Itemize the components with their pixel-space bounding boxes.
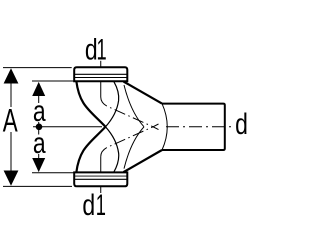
- extension line a top: [32, 80, 74, 82]
- centerline horizontal: [166, 126, 231, 128]
- svg-text:a: a: [33, 94, 46, 127]
- centerline top socket: [101, 61, 159, 130]
- label mask a top: [32, 103, 48, 122]
- centerline bottom socket: [101, 124, 159, 193]
- label a top: [33, 94, 46, 127]
- svg-text:d: d: [85, 33, 98, 66]
- inner crotch curve lower: [124, 127, 144, 169]
- top socket collar: [74, 67, 127, 81]
- extension line A top: [3, 67, 72, 69]
- label A: [3, 102, 18, 138]
- arrow a down: [32, 158, 45, 172]
- extension line A bottom: [3, 185, 72, 187]
- svg-text:A: A: [3, 102, 18, 138]
- dimension stem a: [38, 96, 40, 158]
- label d right: [235, 107, 248, 140]
- body inner tail upper: [106, 127, 119, 172]
- label mask a bottom: [32, 135, 48, 155]
- inner crotch curve upper: [124, 85, 144, 127]
- extension line a bottom: [32, 172, 74, 174]
- top socket collar inner lines: [74, 73, 127, 75]
- svg-text:d: d: [235, 107, 248, 140]
- pipe outline: [162, 104, 225, 150]
- body outline upper left: [76, 81, 105, 127]
- body outline upper right diagonal: [124, 82, 163, 104]
- body outline lower right diagonal: [124, 150, 163, 172]
- svg-text:d: d: [82, 188, 95, 221]
- label d1 bottom: [82, 188, 95, 221]
- arrow A down: [4, 171, 19, 186]
- svg-text:1: 1: [96, 190, 106, 222]
- dimension stem A: [10, 84, 12, 171]
- svg-text:1: 1: [97, 34, 107, 66]
- label d1 top: [85, 33, 98, 66]
- bottom socket collar: [74, 172, 127, 186]
- body inner tail lower: [106, 81, 119, 126]
- arrow a up: [32, 82, 45, 96]
- body outline lower left: [76, 127, 105, 173]
- extension line center: [33, 126, 102, 128]
- junction arc: [162, 104, 167, 150]
- svg-text:a: a: [33, 126, 46, 159]
- bottom socket collar inner lines: [74, 178, 127, 180]
- label mask A: [0, 107, 20, 132]
- arrow A up: [4, 68, 19, 83]
- label a bottom: [33, 126, 46, 159]
- node dot a: [36, 124, 43, 131]
